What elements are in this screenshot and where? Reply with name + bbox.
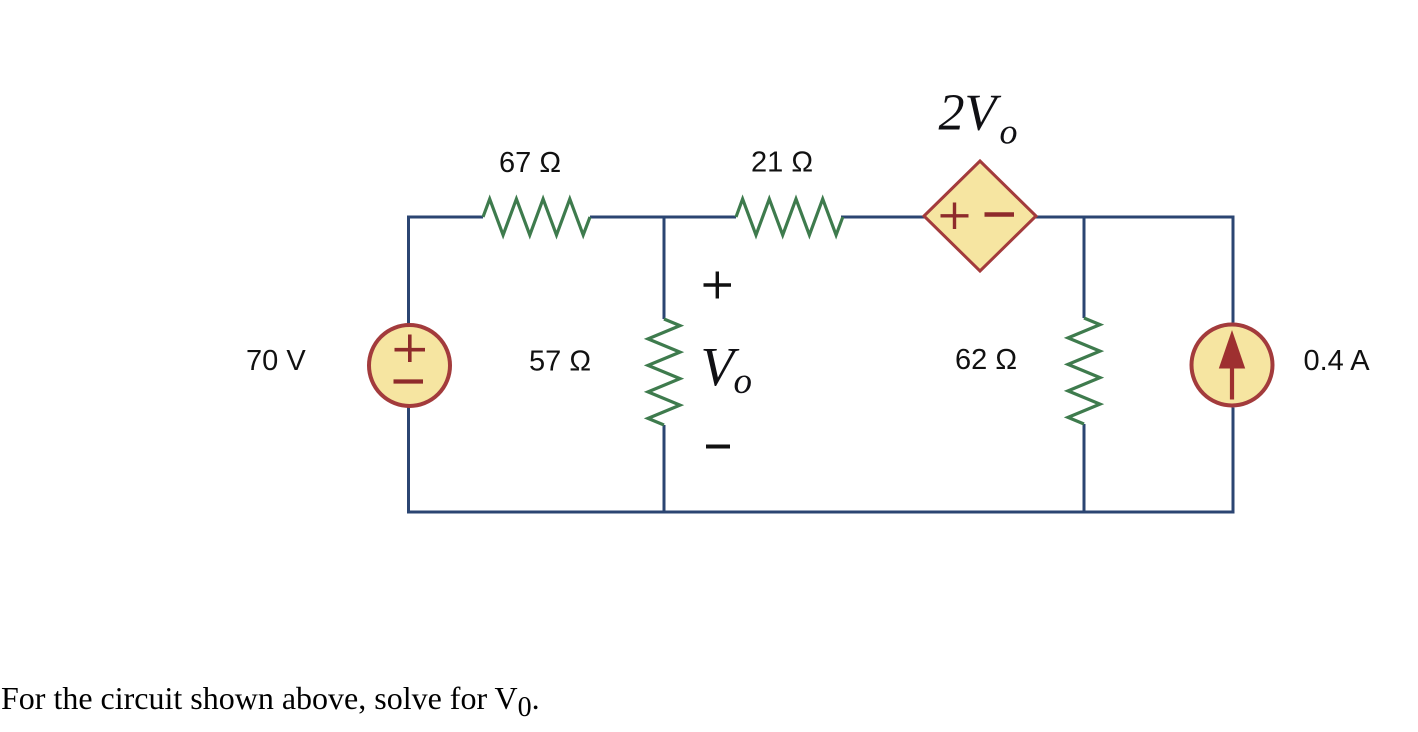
svg-text:57 Ω: 57 Ω xyxy=(529,346,591,378)
svg-text:62 Ω: 62 Ω xyxy=(955,344,1017,376)
svg-text:21 Ω: 21 Ω xyxy=(751,147,813,179)
svg-text:0.4 A: 0.4 A xyxy=(1304,345,1371,377)
svg-text:o: o xyxy=(1000,112,1018,152)
svg-text:70 V: 70 V xyxy=(246,345,306,377)
svg-text:2V: 2V xyxy=(939,85,1002,142)
svg-text:67 Ω: 67 Ω xyxy=(499,147,561,179)
svg-text:o: o xyxy=(734,361,753,402)
